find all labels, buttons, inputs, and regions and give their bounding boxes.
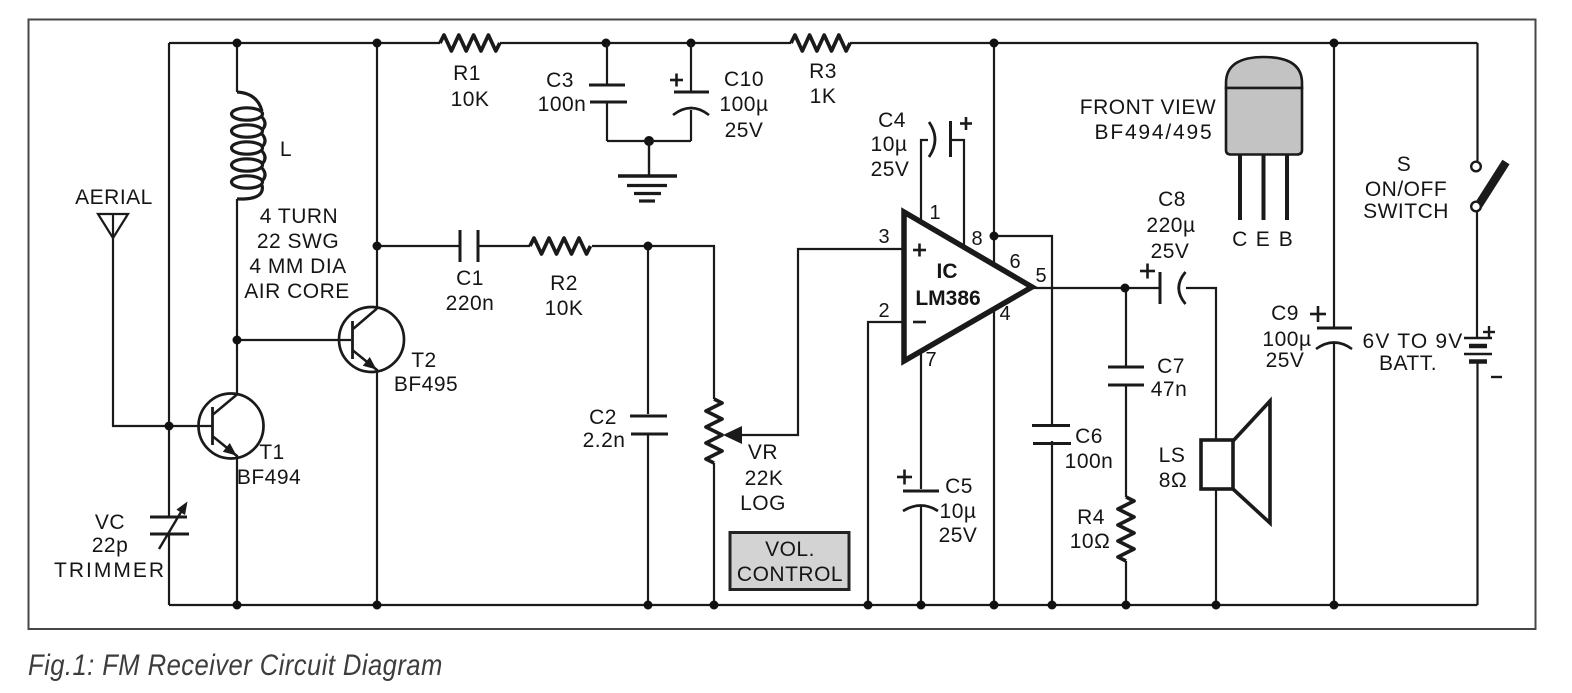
wire T1 collector bbox=[236, 340, 238, 395]
wire C4 to pin 8 bbox=[951, 140, 964, 248]
wire top rail to switch bbox=[1476, 43, 1478, 161]
ground bbox=[618, 141, 677, 201]
svg-text:C5: C5 bbox=[945, 475, 973, 498]
svg-text:8Ω: 8Ω bbox=[1159, 469, 1187, 492]
svg-text:R2: R2 bbox=[550, 272, 578, 295]
junction node: T2 emitter at bottom rail bbox=[373, 601, 382, 610]
capacitor C1 labels bbox=[446, 267, 495, 315]
svg-text:FRONT VIEW: FRONT VIEW bbox=[1080, 96, 1216, 119]
svg-text:AIR CORE: AIR CORE bbox=[244, 280, 350, 303]
svg-text:C7: C7 bbox=[1157, 355, 1185, 378]
svg-text:IC: IC bbox=[937, 260, 958, 283]
resistor R3 labels bbox=[809, 60, 837, 108]
wire pin 1 to C4 bbox=[921, 140, 928, 222]
wire T1 emitter to bottom rail bbox=[236, 455, 238, 605]
capacitor C7 bbox=[1108, 367, 1144, 385]
aerial antenna bbox=[98, 214, 128, 238]
svg-text:25V: 25V bbox=[871, 158, 910, 181]
svg-text:25V: 25V bbox=[939, 524, 978, 547]
svg-text:T1: T1 bbox=[259, 441, 285, 464]
svg-text:R1: R1 bbox=[453, 62, 481, 85]
wire top rail right bbox=[850, 42, 1478, 44]
wire pin 6 supply from top rail bbox=[993, 43, 995, 265]
svg-text:C1: C1 bbox=[456, 267, 484, 290]
wire C5 to bottom rail bbox=[920, 505, 922, 605]
svg-text:BATT.: BATT. bbox=[1379, 352, 1437, 375]
svg-text:CONTROL: CONTROL bbox=[737, 563, 843, 586]
transistor T2 labels bbox=[394, 349, 458, 396]
svg-text:VC: VC bbox=[95, 511, 125, 534]
svg-text:100µ: 100µ bbox=[719, 93, 768, 116]
transistor package front view BF494/495 bbox=[1226, 57, 1302, 220]
capacitor C4 bbox=[929, 121, 951, 157]
svg-text:22p: 22p bbox=[92, 534, 129, 557]
wire pin 7 to C5 bbox=[920, 351, 922, 489]
svg-text:22 SWG: 22 SWG bbox=[257, 230, 339, 253]
wire T2 base bbox=[237, 339, 351, 341]
svg-text:10µ: 10µ bbox=[940, 500, 977, 523]
svg-text:7: 7 bbox=[925, 349, 936, 371]
transistor T1 labels bbox=[237, 441, 301, 489]
VOL. CONTROL label box bbox=[730, 533, 849, 590]
trimmer capacitor VC bbox=[150, 502, 189, 550]
svg-text:AERIAL: AERIAL bbox=[75, 186, 153, 209]
wire C9 to bottom rail bbox=[1333, 343, 1335, 605]
potentiometer VR labels bbox=[740, 441, 786, 515]
svg-text:C4: C4 bbox=[878, 109, 906, 132]
svg-text:R4: R4 bbox=[1077, 506, 1105, 529]
svg-text:L: L bbox=[280, 138, 292, 161]
wire left vertical lower bbox=[168, 535, 170, 605]
svg-text:C3: C3 bbox=[546, 69, 574, 92]
svg-text:1K: 1K bbox=[810, 85, 837, 108]
wire C2 branch bbox=[647, 246, 649, 414]
loudspeaker LS labels bbox=[1159, 444, 1188, 492]
wire aerial down and to T1 base node bbox=[113, 238, 213, 426]
junction node: output line C7 branch bbox=[1121, 284, 1130, 293]
capacitor C4 labels bbox=[871, 109, 910, 181]
wire C6 to bottom rail bbox=[1051, 441, 1053, 605]
svg-text:ON/OFF: ON/OFF bbox=[1365, 178, 1447, 201]
svg-text:10K: 10K bbox=[451, 88, 490, 111]
svg-text:10Ω: 10Ω bbox=[1070, 530, 1111, 553]
wire pin 6 node to output line bbox=[994, 236, 1052, 288]
junction node: pin 6 supply at top rail bbox=[990, 39, 999, 48]
transistor T1 bbox=[199, 394, 264, 459]
wire VR wiper to pin 3 bbox=[740, 249, 904, 435]
svg-text:25V: 25V bbox=[725, 119, 764, 142]
junction node: C2 branch on R2 line bbox=[644, 242, 653, 251]
svg-text:6: 6 bbox=[1009, 251, 1020, 273]
wire coil bottom to node A bbox=[236, 199, 238, 340]
battery labels bbox=[0, 0, 1, 1]
svg-text:2: 2 bbox=[878, 300, 889, 322]
svg-text:4 MM DIA: 4 MM DIA bbox=[249, 255, 346, 278]
switch S labels bbox=[1363, 153, 1449, 223]
junction node: C6 at bottom rail bbox=[1048, 601, 1057, 610]
wire C9 from top rail bbox=[1333, 43, 1335, 327]
svg-text:VOL.: VOL. bbox=[765, 538, 815, 561]
wire pin 2 to ground rail bbox=[868, 322, 904, 605]
capacitor C8 bbox=[1160, 272, 1186, 304]
svg-text:100n: 100n bbox=[1065, 450, 1114, 473]
svg-text:C8: C8 bbox=[1158, 188, 1186, 211]
junction node: C3 at top rail bbox=[602, 39, 611, 48]
svg-text:VR: VR bbox=[748, 441, 778, 464]
transistor T2 bbox=[339, 307, 404, 372]
wire C6 branch bbox=[1051, 288, 1053, 424]
svg-text:SWITCH: SWITCH bbox=[1363, 200, 1449, 223]
capacitor C9 labels bbox=[1271, 302, 1299, 325]
svg-text:R3: R3 bbox=[809, 60, 837, 83]
wire C7 to R4 bbox=[1125, 386, 1127, 497]
capacitor C6 bbox=[1032, 426, 1071, 444]
capacitor C8 labels bbox=[1146, 188, 1195, 263]
junction node: coil L at top rail bbox=[233, 39, 242, 48]
svg-text:25V: 25V bbox=[1151, 240, 1190, 263]
junction node: pin 4 at bottom rail bbox=[990, 601, 999, 610]
svg-text:2.2n: 2.2n bbox=[583, 429, 626, 452]
capacitor C10 labels bbox=[0, 0, 1, 1]
svg-text:4 TURN: 4 TURN bbox=[260, 205, 338, 228]
resistor R1 labels bbox=[451, 62, 490, 111]
junction node: C9 at top rail bbox=[1330, 39, 1339, 48]
junction node: aerial to T1 base bbox=[165, 422, 174, 431]
wire R4 to bottom rail bbox=[1125, 561, 1127, 605]
svg-text:Fig.1: FM Receiver Circuit Dia: Fig.1: FM Receiver Circuit Diagram bbox=[28, 648, 443, 681]
junction node: R4 at bottom rail bbox=[1122, 601, 1131, 610]
svg-text:3: 3 bbox=[878, 226, 889, 248]
resistor R4 bbox=[1118, 497, 1134, 561]
svg-text:LOG: LOG bbox=[740, 492, 786, 515]
wire battery to bottom rail bbox=[1476, 362, 1478, 605]
junction node: T1 emitter at bottom rail bbox=[233, 601, 242, 610]
wire coil top feed bbox=[236, 43, 238, 92]
junction node: pin 2 at bottom rail bbox=[864, 601, 873, 610]
capacitor C2 labels bbox=[583, 406, 626, 452]
svg-text:C2: C2 bbox=[589, 406, 617, 429]
junction node A: T1 collector / T2 base bbox=[233, 336, 242, 345]
junction node: speaker at bottom rail bbox=[1212, 601, 1221, 610]
svg-text:B: B bbox=[1279, 228, 1294, 251]
svg-text:10K: 10K bbox=[545, 297, 584, 320]
wire C7 branch bbox=[1125, 288, 1127, 366]
inductor L bbox=[232, 92, 266, 199]
svg-text:T2: T2 bbox=[411, 349, 437, 372]
battery BT1 bbox=[1464, 338, 1492, 362]
wire C8 to speaker bbox=[1186, 288, 1216, 440]
svg-text:TRIMMER: TRIMMER bbox=[54, 559, 166, 582]
wire node B to C1 bbox=[377, 245, 460, 247]
junction node: VR at bottom rail bbox=[710, 601, 719, 610]
potentiometer VR bbox=[706, 399, 742, 463]
switch S bbox=[1471, 162, 1506, 212]
svg-text:C10: C10 bbox=[724, 68, 764, 91]
junction node: C9 at bottom rail bbox=[1330, 601, 1339, 610]
svg-text:220µ: 220µ bbox=[1146, 214, 1195, 237]
svg-text:LS: LS bbox=[1159, 444, 1186, 467]
resistor R4 labels bbox=[1070, 506, 1111, 553]
capacitor C2 bbox=[630, 416, 668, 434]
capacitor C6 labels bbox=[1065, 425, 1114, 473]
wire C1 to R2 bbox=[478, 245, 530, 247]
capacitor C5 bbox=[903, 491, 939, 511]
junction node: C3 C10 ground tie bbox=[644, 136, 654, 146]
svg-text:220n: 220n bbox=[446, 292, 495, 315]
wire pin 4 to bottom rail bbox=[993, 308, 995, 605]
svg-text:C: C bbox=[1232, 228, 1248, 251]
wire VR bottom to bottom rail bbox=[713, 463, 715, 605]
svg-text:LM386: LM386 bbox=[915, 287, 980, 310]
wire top rail left bbox=[169, 42, 440, 44]
junction node: C10 at top rail bbox=[687, 39, 696, 48]
capacitor C3 bbox=[589, 43, 691, 141]
capacitor C9 bbox=[1316, 328, 1352, 349]
op-amp U1 IC LM386 bbox=[904, 212, 1032, 361]
junction node B: T2 collector / C1 bbox=[373, 242, 382, 251]
wire T2 collector from top rail bbox=[376, 43, 378, 309]
svg-text:4: 4 bbox=[999, 303, 1010, 325]
junction node: T2 collector at top rail bbox=[373, 39, 382, 48]
resistor R2 bbox=[530, 238, 591, 254]
svg-text:8: 8 bbox=[971, 228, 982, 250]
wire output line pin 5 to C8 bbox=[1032, 287, 1160, 289]
wire T2 emitter to bottom rail bbox=[376, 369, 378, 605]
wire speaker to bottom rail bbox=[1215, 489, 1217, 605]
capacitor C3 labels bbox=[538, 69, 587, 116]
junction node: C5 at bottom rail bbox=[917, 601, 926, 610]
svg-text:47n: 47n bbox=[1151, 378, 1188, 401]
svg-text:10µ: 10µ bbox=[871, 133, 908, 156]
svg-text:22K: 22K bbox=[745, 467, 784, 490]
svg-text:100n: 100n bbox=[538, 93, 587, 116]
resistor R2 labels bbox=[545, 272, 584, 320]
svg-text:BF494: BF494 bbox=[237, 466, 301, 489]
wire left vertical upper bbox=[168, 43, 170, 517]
svg-text:C9: C9 bbox=[1271, 302, 1299, 325]
svg-text:100µ: 100µ bbox=[1262, 328, 1311, 351]
loudspeaker LS bbox=[1201, 401, 1270, 523]
svg-text:BF495: BF495 bbox=[394, 373, 458, 396]
capacitor C10 bbox=[673, 43, 709, 141]
inductor L value labels bbox=[244, 205, 350, 303]
junction node: C2 at bottom rail bbox=[644, 601, 653, 610]
wire bottom rail bbox=[169, 604, 1478, 606]
svg-text:6V TO 9V: 6V TO 9V bbox=[1362, 330, 1463, 353]
svg-text:S: S bbox=[1397, 153, 1412, 176]
transistor package labels bbox=[1080, 96, 1293, 251]
capacitor C7 labels bbox=[1151, 355, 1188, 401]
wire R2 to VR top bbox=[592, 246, 714, 399]
svg-text:1: 1 bbox=[929, 202, 940, 224]
capacitor C1 bbox=[460, 230, 478, 262]
svg-text:BF494/495: BF494/495 bbox=[1095, 121, 1214, 144]
svg-text:25V: 25V bbox=[1266, 349, 1305, 372]
svg-text:5: 5 bbox=[1035, 265, 1046, 287]
wire switch to battery bbox=[1476, 211, 1478, 338]
capacitor C5 labels bbox=[0, 0, 1, 1]
resistor R1 bbox=[440, 35, 500, 51]
wire top rail middle bbox=[500, 42, 791, 44]
wire C2 to bottom rail bbox=[647, 435, 649, 605]
svg-text:E: E bbox=[1256, 228, 1271, 251]
svg-text:C6: C6 bbox=[1075, 425, 1103, 448]
junction node: pin 6 tap bbox=[990, 232, 999, 241]
trimmer VC labels bbox=[54, 511, 166, 582]
resistor R3 bbox=[791, 35, 850, 51]
